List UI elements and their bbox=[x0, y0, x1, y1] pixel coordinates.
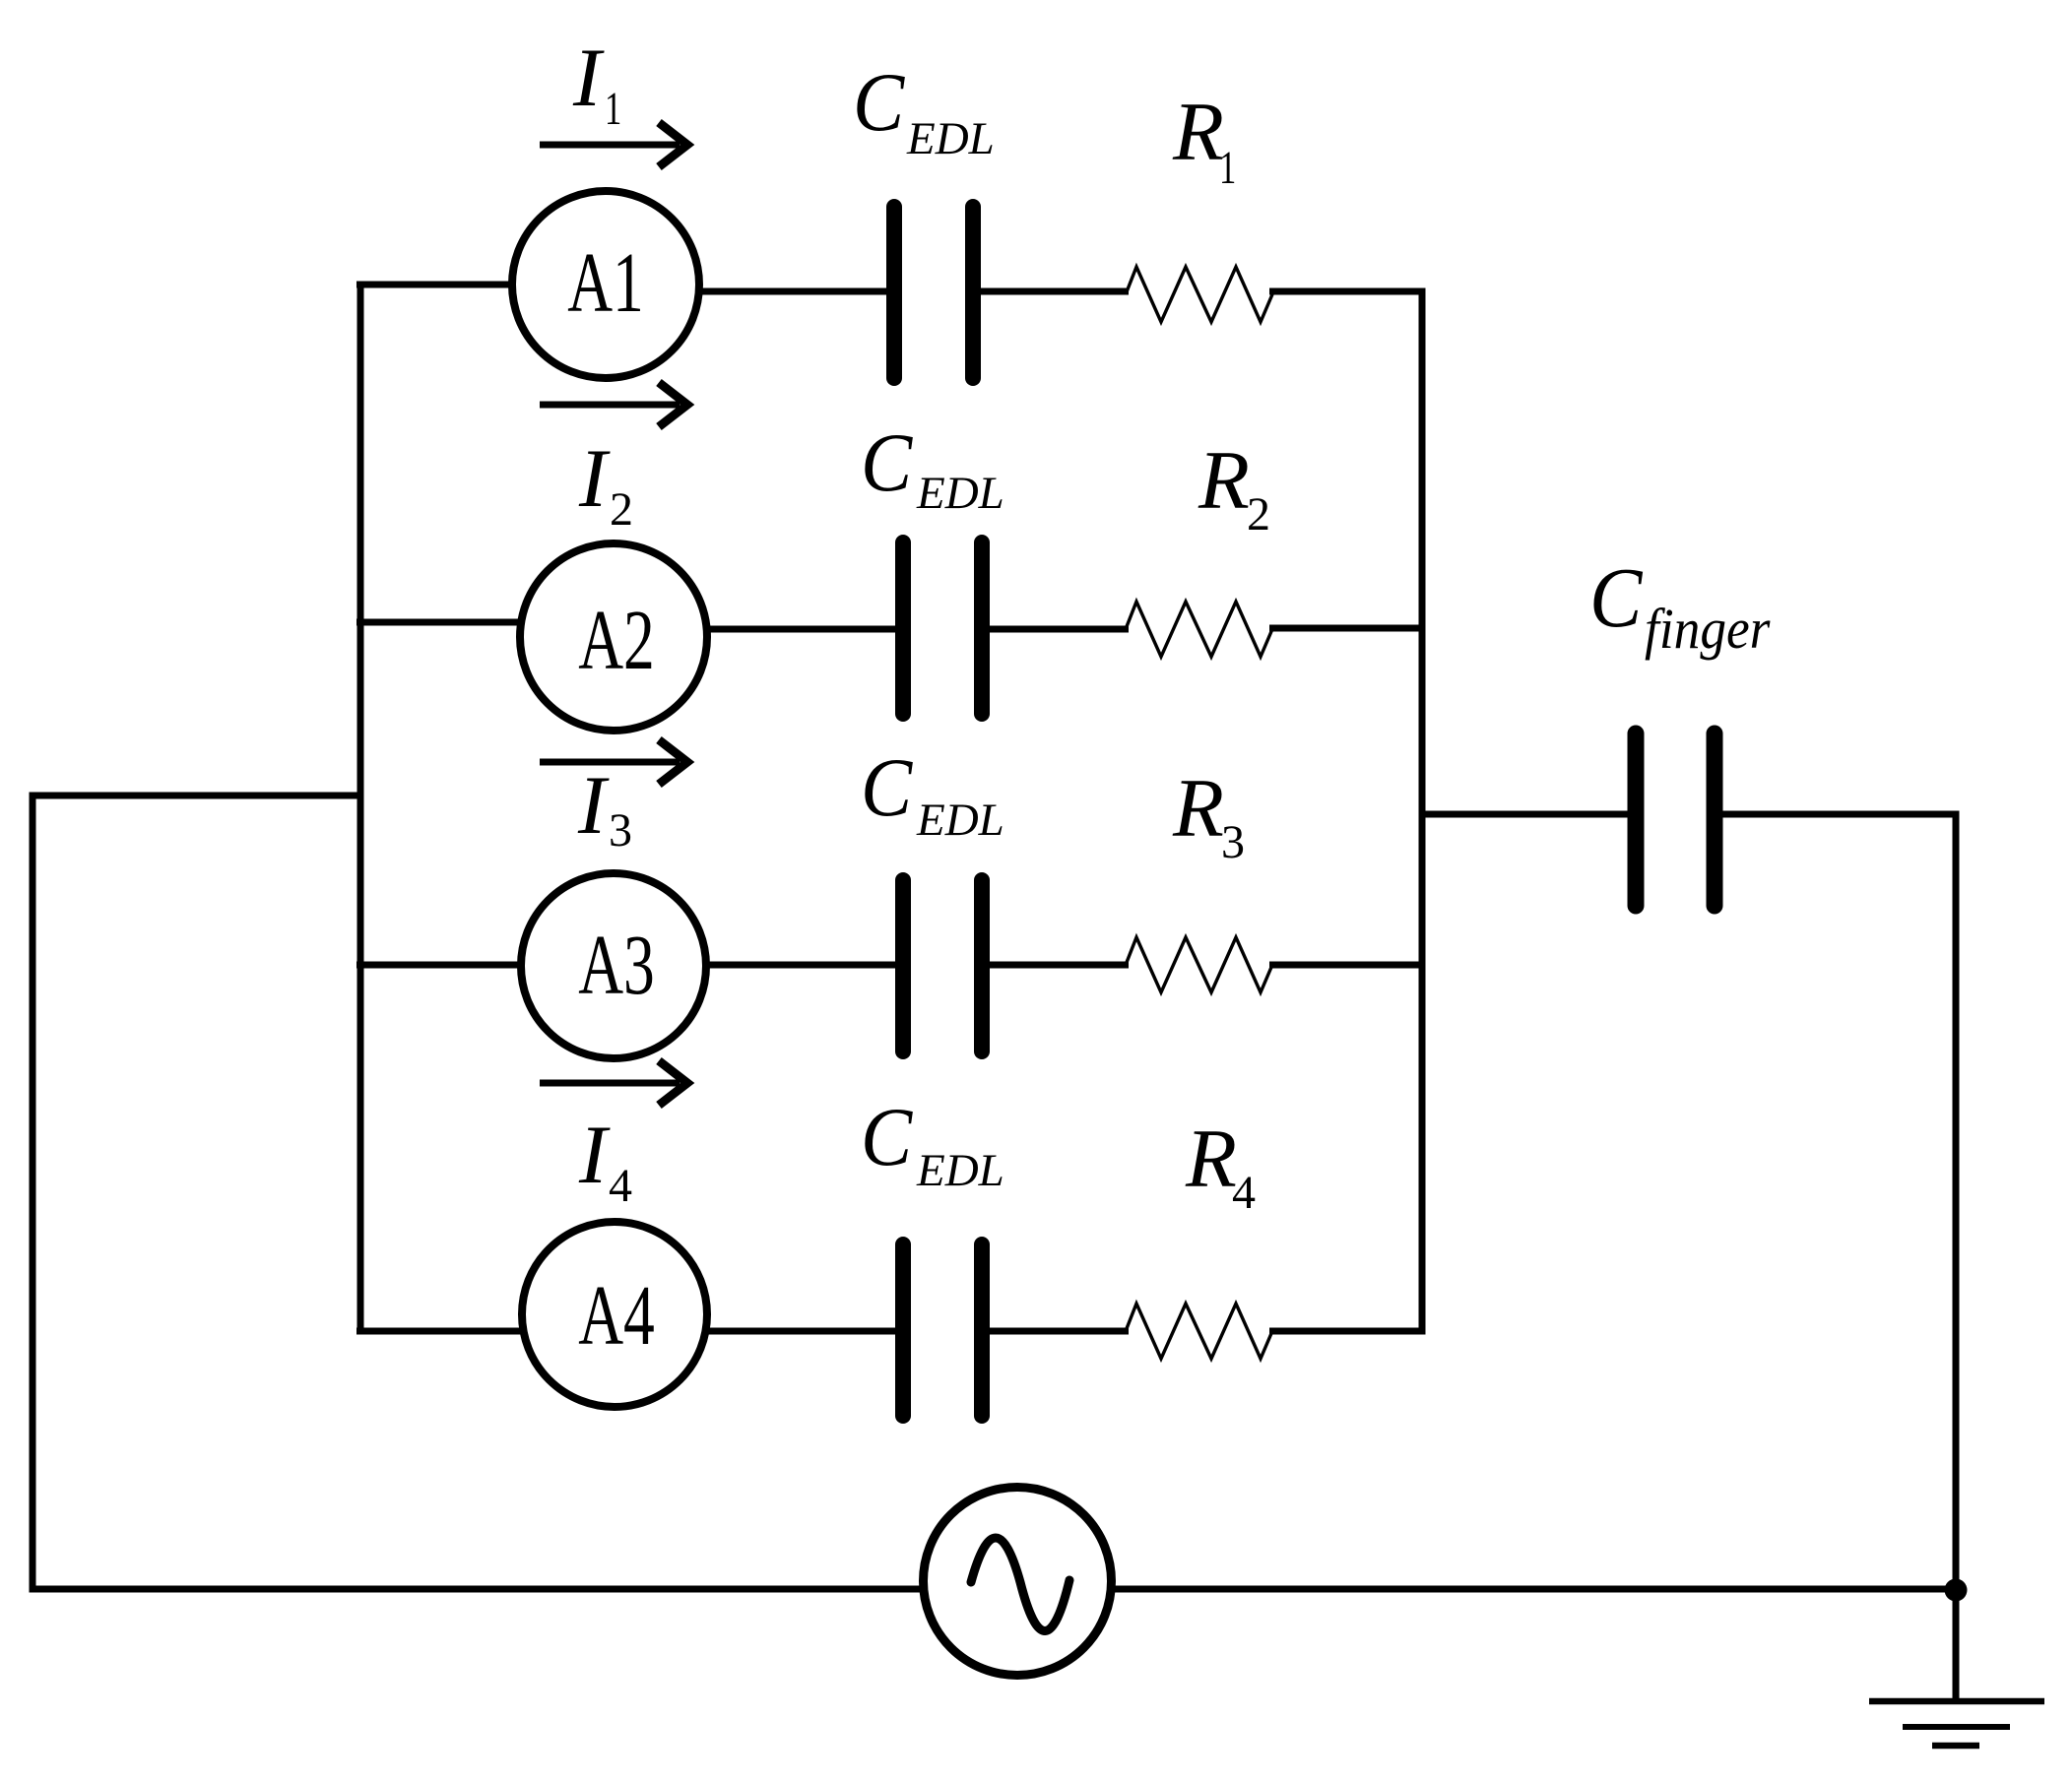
label A4 bbox=[578, 1268, 655, 1363]
current arrow I4 bbox=[540, 1061, 687, 1106]
svg-text:C: C bbox=[861, 415, 914, 509]
svg-text:A1: A1 bbox=[567, 235, 644, 330]
ground bar 1 bbox=[1869, 1698, 2044, 1705]
wire: branch 4 left segment bbox=[356, 1328, 615, 1335]
svg-text:4: 4 bbox=[609, 1160, 632, 1212]
svg-text:A2: A2 bbox=[578, 593, 655, 687]
wire: branch 4 ammeter to capacitor bbox=[615, 1328, 905, 1335]
capacitor C_finger plates bbox=[1636, 733, 1715, 906]
label A1 bbox=[567, 235, 644, 330]
label I4 bbox=[578, 1109, 632, 1212]
svg-text:finger: finger bbox=[1645, 598, 1771, 662]
svg-text:3: 3 bbox=[1221, 816, 1245, 868]
ammeter A1 bbox=[512, 191, 699, 378]
wire: C_finger right lead bbox=[1714, 811, 1960, 818]
wire: branch 4 capacitor to resistor bbox=[980, 1328, 1129, 1335]
wire: branch 2 ammeter to capacitor bbox=[614, 626, 905, 633]
label R2 bbox=[1198, 434, 1270, 541]
wire: outer-left vertical bbox=[30, 793, 36, 1593]
label I1 bbox=[572, 32, 621, 135]
label I2 bbox=[578, 432, 633, 536]
resistor R1 bbox=[1126, 267, 1272, 322]
capacitor C_EDL plates (branch 1) bbox=[894, 207, 973, 378]
svg-text:R: R bbox=[1185, 1113, 1237, 1205]
wire: right bus bbox=[1419, 288, 1426, 1335]
wire: ground stem bbox=[1953, 1589, 1960, 1701]
svg-text:R: R bbox=[1172, 762, 1224, 855]
resistor R4 bbox=[1126, 1304, 1272, 1359]
svg-text:4: 4 bbox=[1232, 1167, 1256, 1219]
svg-text:C: C bbox=[861, 1090, 914, 1183]
svg-text:C: C bbox=[853, 55, 906, 149]
current arrow I1 bbox=[540, 123, 687, 167]
label R3 bbox=[1172, 762, 1245, 868]
svg-text:A3: A3 bbox=[578, 918, 655, 1012]
wire: branch 3 capacitor to resistor bbox=[980, 962, 1129, 969]
svg-text:2: 2 bbox=[1247, 488, 1270, 541]
svg-text:1: 1 bbox=[605, 84, 621, 136]
wire: connector from left bus to outer-left vertical bbox=[30, 793, 360, 799]
ground bar 2 bbox=[1903, 1724, 2010, 1730]
capacitor C_EDL plates (branch 4) bbox=[903, 1244, 982, 1416]
wire: branch 2 left segment bbox=[356, 619, 614, 626]
ammeter A4 bbox=[522, 1222, 707, 1407]
svg-text:C: C bbox=[861, 740, 914, 834]
capacitor C_EDL plates (branch 2) bbox=[903, 542, 982, 714]
capacitor C_EDL plates (branch 3) bbox=[903, 880, 982, 1051]
svg-text:I: I bbox=[578, 1109, 611, 1201]
wire: branch 4 resistor to right bus bbox=[1269, 1328, 1425, 1335]
label C_EDL (branch 2) bbox=[861, 415, 1004, 519]
wire: branch 3 resistor to right bus bbox=[1269, 962, 1425, 969]
svg-text:EDL: EDL bbox=[916, 795, 1004, 846]
svg-text:2: 2 bbox=[610, 483, 633, 536]
ammeter A2 bbox=[520, 543, 707, 731]
AC source circle bbox=[924, 1488, 1112, 1676]
label C_EDL (branch 4) bbox=[861, 1090, 1004, 1196]
svg-text:I: I bbox=[578, 432, 611, 525]
svg-text:C: C bbox=[1589, 551, 1644, 646]
wire: branch 1 capacitor to resistor bbox=[971, 288, 1129, 295]
ammeter A3 bbox=[521, 873, 706, 1058]
label C_EDL (branch 1) bbox=[853, 55, 995, 164]
wire: branch 2 resistor to right bus bbox=[1269, 625, 1425, 632]
resistor R2 bbox=[1126, 602, 1272, 657]
wire: branch 1 resistor to right bus bbox=[1269, 288, 1425, 295]
wire: branch 1 left segment bbox=[356, 282, 606, 288]
junction node (bottom right) bbox=[1945, 1579, 1968, 1602]
wire: branch 3 ammeter to capacitor bbox=[614, 962, 905, 969]
ground bar 3 bbox=[1932, 1743, 1979, 1750]
label C_EDL (branch 3) bbox=[861, 740, 1004, 846]
svg-text:3: 3 bbox=[609, 804, 632, 857]
svg-text:A4: A4 bbox=[578, 1268, 655, 1363]
svg-text:I: I bbox=[572, 32, 605, 124]
svg-text:R: R bbox=[1172, 86, 1224, 178]
svg-text:EDL: EDL bbox=[916, 1145, 1004, 1196]
current arrow I2 bbox=[540, 383, 687, 427]
wire: right vertical from C_finger line down to junction bbox=[1953, 814, 1960, 1589]
svg-text:EDL: EDL bbox=[906, 113, 995, 164]
label C_finger bbox=[1589, 551, 1771, 662]
svg-text:I: I bbox=[577, 759, 610, 852]
svg-text:R: R bbox=[1198, 434, 1250, 527]
label A2 bbox=[578, 593, 655, 687]
current arrow I3 bbox=[540, 740, 687, 785]
wire: branch 1 ammeter to capacitor bbox=[606, 288, 896, 295]
label R4 bbox=[1185, 1113, 1256, 1219]
label A3 bbox=[578, 918, 655, 1012]
wire: C_finger left lead bbox=[1419, 811, 1637, 818]
wire: left bus bbox=[357, 282, 364, 1335]
label I3 bbox=[577, 759, 632, 857]
wire: bottom horizontal bbox=[30, 1586, 1957, 1593]
svg-text:1: 1 bbox=[1219, 143, 1236, 195]
wire: branch 2 capacitor to resistor bbox=[980, 626, 1129, 633]
AC source sine wave bbox=[971, 1538, 1069, 1631]
label R1 bbox=[1172, 86, 1236, 194]
wire: branch 3 left segment bbox=[356, 962, 614, 969]
resistor R3 bbox=[1126, 937, 1272, 992]
svg-text:EDL: EDL bbox=[916, 468, 1004, 519]
